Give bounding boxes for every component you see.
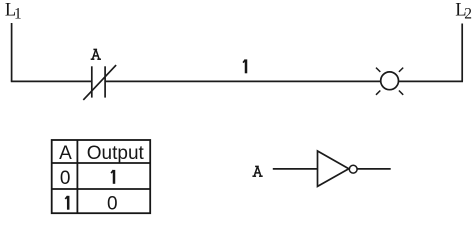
svg-text:A: A: [59, 143, 72, 164]
wire: lamp 1 to L2 rail: [398, 80, 463, 82]
wire: contact A to lamp 1: [105, 80, 381, 82]
NOT gate input label A: [252, 166, 262, 176]
truth table digit 1 (row 1, Output column): [111, 170, 114, 184]
rail label L2: [455, 1, 472, 23]
rail label L1: [5, 1, 22, 23]
rung number 1: [243, 59, 246, 73]
truth table text: [59, 143, 144, 215]
label A (contact name): [91, 49, 101, 59]
wire: NOT gate input: [273, 168, 318, 170]
svg-text:0: 0: [107, 194, 118, 215]
wire: rung from L1 rail to contact A: [11, 80, 92, 82]
truth table digit 1 (row 2, A column): [65, 196, 68, 210]
truth table grid: [52, 140, 151, 213]
left power rail L1 (wire): [11, 23, 13, 81]
svg-text:2: 2: [464, 6, 472, 23]
wire: NOT gate output: [357, 168, 390, 170]
NOT gate (inverter triangle): [318, 151, 349, 186]
lamp 1 (output): [376, 68, 403, 95]
NOT gate inversion bubble: [349, 165, 357, 173]
svg-text:1: 1: [14, 6, 22, 23]
svg-text:Output: Output: [87, 143, 145, 164]
contact A (normally-closed contact): [83, 65, 116, 100]
right power rail L2 (wire): [461, 24, 463, 82]
svg-text:0: 0: [60, 168, 71, 189]
